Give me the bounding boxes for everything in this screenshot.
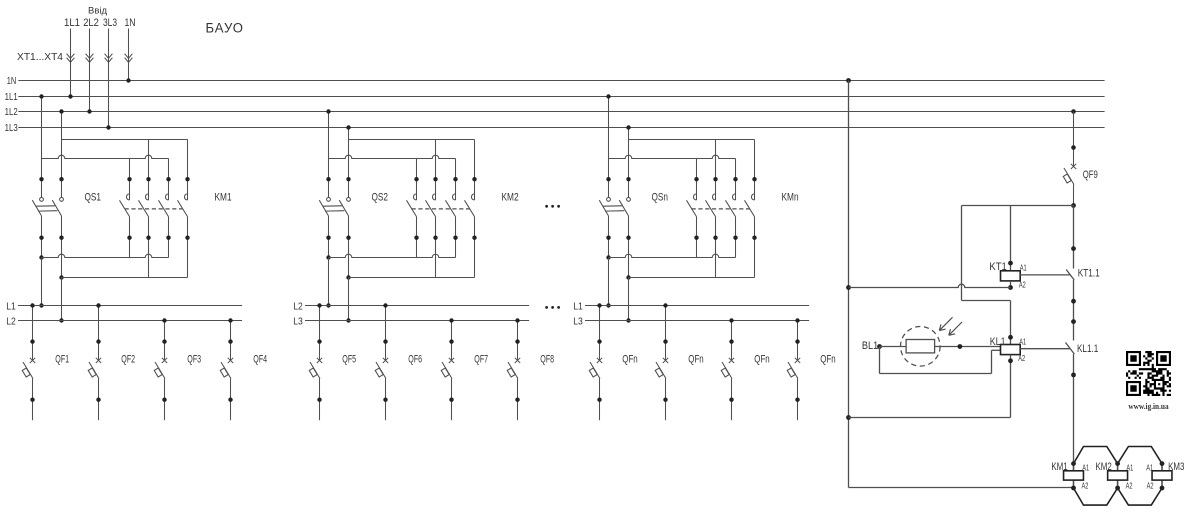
wire KM coils supply (bottom)	[849, 487, 1074, 489]
QR code www.ig.in.ua	[1126, 351, 1171, 396]
svg-text:3L3: 3L3	[103, 17, 117, 29]
disconnector QS1 pole2 contact	[60, 198, 64, 202]
node QF9 output	[1071, 203, 1076, 208]
disconnector QS2 pole1 contact	[327, 198, 331, 202]
svg-text:KM1: KM1	[215, 191, 232, 203]
mechanical link QS1	[36, 205, 55, 207]
svg-text:L1: L1	[573, 302, 583, 313]
wire QS1 pole1 to output junction	[41, 216, 43, 258]
mechanical link QSn	[603, 205, 622, 207]
contactor KM2 pole2 contact	[432, 194, 435, 200]
breaker QF3	[164, 321, 166, 361]
svg-text:QF9: QF9	[1083, 169, 1098, 181]
wire QS1 pole1 drop from bus	[41, 97, 43, 198]
svg-text:QFn: QFn	[820, 353, 835, 365]
svg-text:www.ig.in.ua: www.ig.in.ua	[1128, 401, 1169, 411]
svg-text:Ввід: Ввід	[88, 6, 108, 16]
wire KM1 pole1 riser	[129, 159, 131, 201]
svg-text:QS2: QS2	[372, 191, 389, 203]
mechanical link KM2 (dashed)	[412, 208, 470, 210]
disconnector QSn pole2 contact	[627, 198, 631, 202]
wire QS2 pole2 drop from bus	[348, 128, 350, 198]
contact KT1.1	[1073, 206, 1075, 269]
breaker QF7	[451, 321, 453, 361]
wire KM2 pole1 riser	[416, 159, 418, 201]
wire phase-1 top link to KMn (hops)	[609, 155, 736, 158]
svg-text:L1: L1	[6, 302, 16, 313]
svg-text:1L2: 1L2	[5, 107, 18, 118]
breaker QFn	[731, 321, 733, 361]
bus L3 (group)	[585, 320, 809, 322]
ellipsis (groups continue, top)	[545, 205, 548, 208]
wire KM1 pole2 lower	[148, 217, 150, 278]
node KM A1 link	[1074, 447, 1118, 464]
wire output phase-1 collector (hops)	[329, 254, 456, 257]
ellipsis (groups continue, bottom)	[545, 306, 548, 309]
wire KM2 pole4 riser	[474, 140, 476, 201]
contactor KM2 pole3 contact	[452, 194, 455, 200]
svg-text:QF3: QF3	[187, 353, 201, 365]
svg-text:QSn: QSn	[652, 191, 669, 203]
wire QS2 pole1 drop from bus	[328, 112, 330, 198]
wire phase-2 top link to KMn	[629, 139, 755, 141]
disconnector QS2 pole2 contact	[347, 198, 351, 202]
relay coil KL1	[1001, 345, 1021, 355]
wire KM1 pole4 lower	[187, 217, 189, 278]
svg-text:1L1: 1L1	[5, 92, 18, 103]
svg-text:KM1: KM1	[1051, 461, 1067, 473]
svg-text:KM2: KM2	[1096, 461, 1112, 473]
wire phase-1 top link to KM2 (hops)	[329, 155, 456, 158]
svg-text:KT1.1: KT1.1	[1078, 267, 1100, 279]
svg-text:QF5: QF5	[342, 353, 356, 365]
wire output phase-1 collector (hops)	[42, 254, 169, 257]
wire KM1 pole3 lower	[168, 217, 170, 258]
svg-text:A1: A1	[1146, 462, 1153, 472]
breaker QF8	[517, 321, 519, 361]
contactor KM1 pole3 contact	[165, 194, 168, 200]
svg-text:1N: 1N	[7, 76, 16, 87]
bus L2 (group)	[305, 305, 529, 307]
wire KMn pole2 riser	[715, 140, 717, 201]
disconnector QSn pole1 contact	[607, 198, 611, 202]
wire KM1 pole2 riser	[148, 140, 150, 201]
wire control left rail from 1N	[846, 78, 851, 83]
input arrow 3L3	[105, 54, 113, 63]
wire QSn pole1 drop from bus	[608, 97, 610, 198]
junction dot feeder 2L2	[87, 109, 91, 113]
svg-text:L2: L2	[293, 302, 303, 313]
wire output phase-2 collector	[629, 277, 755, 279]
breaker QF9	[1071, 109, 1076, 114]
svg-text:KL1: KL1	[990, 336, 1006, 348]
wire KM1 pole3 riser	[168, 159, 170, 201]
wire KMn pole3 riser	[735, 159, 737, 201]
wire KM2 pole2 riser	[435, 140, 437, 201]
disconnector QS1 pole1 contact	[40, 198, 44, 202]
input arrow 1L1	[67, 54, 75, 63]
wire QSn pole1 to output junction	[608, 216, 610, 258]
svg-text:1N: 1N	[125, 17, 136, 29]
wire output phase-1 collector (hops)	[609, 254, 736, 257]
bus 1L2	[18, 111, 1104, 113]
svg-text:A2: A2	[1147, 480, 1154, 490]
wire BL1 lower loop	[879, 347, 881, 374]
wire KMn pole4 lower	[754, 217, 756, 278]
svg-text:A1: A1	[1082, 462, 1089, 472]
wire KMn pole1 lower	[696, 217, 698, 258]
svg-text:KL1.1: KL1.1	[1077, 343, 1098, 355]
mechanical link KM1 (dashed)	[125, 208, 183, 210]
contactor KMn pole1 contact	[693, 194, 696, 200]
wire QS1 pole2 drop from bus	[61, 112, 63, 198]
contactor KM2 pole1 contact	[413, 194, 416, 200]
bus 1L1	[18, 96, 1104, 98]
wire KM1 pole1 lower	[129, 217, 131, 258]
svg-text:БАУО: БАУО	[206, 20, 245, 35]
wire KM2 pole4 lower	[474, 217, 476, 278]
junction dot feeder 3L3	[106, 125, 110, 129]
contactor KMn pole3 contact	[732, 194, 735, 200]
wire QS1 pole2 to output junction	[61, 216, 63, 278]
wire KT1 coil feed	[1010, 206, 1012, 271]
wire QF9 output to KT1 branch	[962, 205, 1074, 207]
svg-text:L3: L3	[573, 317, 583, 328]
svg-text:L3: L3	[293, 317, 303, 328]
svg-text:KMn: KMn	[782, 191, 799, 203]
svg-text:A1: A1	[1126, 462, 1133, 472]
wire KL1 A1 to contact KL1.1	[1020, 348, 1070, 350]
wire KMn pole1 riser	[696, 159, 698, 201]
wire KM2 pole2 lower	[435, 217, 437, 278]
svg-text:KM3: KM3	[1168, 461, 1184, 473]
input feeder 3L3 wire	[108, 29, 110, 128]
breaker QF1	[32, 306, 34, 361]
breaker QF6	[385, 306, 387, 361]
svg-text:QS1: QS1	[85, 191, 102, 203]
svg-text:A1: A1	[1019, 336, 1026, 346]
contactor coil KM2	[1117, 464, 1119, 471]
input feeder 2L2 wire	[89, 29, 91, 112]
contactor KM1 pole4 contact	[184, 194, 187, 200]
wire QS2 pole2 to output junction	[348, 216, 350, 278]
bus L1 (group)	[18, 305, 242, 307]
input arrow 1N	[125, 54, 133, 63]
wire phase-2 top link to KM2	[349, 139, 475, 141]
wire KM2 pole3 lower	[455, 217, 457, 258]
svg-text:QF4: QF4	[253, 353, 267, 365]
svg-text:BL1: BL1	[862, 340, 878, 352]
breaker QF5	[319, 306, 321, 361]
contactor KMn pole2 contact	[712, 194, 715, 200]
svg-text:1L3: 1L3	[5, 123, 18, 134]
svg-text:QF6: QF6	[408, 353, 422, 365]
contactor KMn pole4 contact	[751, 194, 754, 200]
wire KMn pole4 riser	[754, 140, 756, 201]
node KM A2 link	[1074, 488, 1118, 505]
svg-text:A2: A2	[1082, 480, 1089, 490]
bus 1L3	[18, 127, 1104, 129]
breaker QFn	[665, 306, 667, 361]
mechanical link KMn (dashed)	[692, 208, 750, 210]
mechanical link QS2	[323, 205, 342, 207]
contactor coil KM3	[1161, 464, 1163, 471]
wire QSn pole2 drop from bus	[628, 128, 630, 198]
svg-text:L2: L2	[6, 317, 16, 328]
bus L3 (group)	[305, 320, 529, 322]
wire KL1.1 to KM coils	[1073, 354, 1075, 464]
svg-text:XT1...XT4: XT1...XT4	[17, 52, 63, 63]
wire phase-2 top link to KM1	[62, 139, 188, 141]
contactor KM1 pole2 contact	[145, 194, 148, 200]
wire QS2 pole1 to output junction	[328, 216, 330, 258]
svg-text:QFn: QFn	[622, 353, 637, 365]
svg-text:2L2: 2L2	[83, 17, 99, 29]
wire output phase-2 collector	[62, 277, 188, 279]
svg-text:1L1: 1L1	[64, 17, 80, 29]
wire KMn pole2 lower	[715, 217, 717, 278]
breaker QF4	[230, 321, 232, 361]
wire KL1 feed branch	[961, 206, 963, 301]
svg-text:A1: A1	[1020, 263, 1027, 273]
breaker QF2	[98, 306, 100, 361]
bus L2 (group)	[18, 320, 242, 322]
svg-text:QF8: QF8	[540, 353, 554, 365]
bus L1 (group)	[585, 305, 809, 307]
svg-text:QF2: QF2	[121, 353, 135, 365]
light arrows at BL1	[939, 317, 952, 330]
wire KL1 A2 to rail	[1010, 355, 1012, 418]
relay coil KT1	[1001, 271, 1021, 281]
svg-text:A2: A2	[1126, 480, 1133, 490]
svg-text:QF7: QF7	[474, 353, 488, 365]
svg-text:KT1: KT1	[989, 261, 1006, 273]
input arrow 2L2	[86, 54, 94, 63]
svg-text:KM2: KM2	[502, 191, 519, 203]
svg-text:QFn: QFn	[688, 353, 703, 365]
wire KT1 A1 to contact KT1.1	[1020, 274, 1070, 276]
svg-text:QF1: QF1	[55, 353, 69, 365]
wire KM2 pole3 riser	[455, 159, 457, 201]
junction dot feeder 1N	[126, 78, 130, 82]
wire KM1 pole4 riser	[187, 140, 189, 201]
svg-text:QFn: QFn	[754, 353, 769, 365]
contactor coil KM1	[1073, 464, 1075, 471]
wire KT1.1 to KL1.1	[1073, 280, 1075, 341]
wire QSn pole2 to output junction	[628, 216, 630, 278]
bus 1N	[18, 80, 1104, 82]
wire phase-1 top link to KM1 (hops)	[42, 155, 169, 158]
input feeder 1N wire	[128, 29, 130, 81]
breaker QFn	[797, 321, 799, 361]
wire KMn pole3 lower	[735, 217, 737, 258]
breaker QFn	[599, 306, 601, 361]
junction dot feeder 1L1	[68, 94, 72, 98]
contact KL1.1	[1066, 343, 1075, 355]
wire output phase-2 collector	[349, 277, 475, 279]
input feeder 1L1 wire	[70, 29, 72, 97]
contactor KM1 pole1 contact	[126, 194, 129, 200]
svg-text:A2: A2	[1018, 353, 1025, 363]
svg-text:A2: A2	[1019, 280, 1026, 290]
wire KM2 pole1 lower	[416, 217, 418, 258]
contactor KM2 pole4 contact	[471, 194, 474, 200]
wire KT1 A2 to rail (hop)	[1010, 281, 1012, 288]
